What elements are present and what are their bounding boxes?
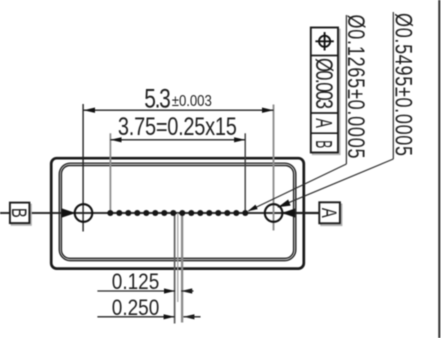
dimension 0.250 line: [97, 316, 174, 318]
arrow 5.3 left: [84, 108, 96, 113]
leader to pin hole: [248, 164, 346, 211]
feature control frame box: [311, 28, 338, 153]
arrow 0.250 right-pointing: [164, 314, 175, 319]
part inner cavity outline (outer line): [59, 163, 295, 260]
pin holes row (16 small holes): [107, 210, 248, 216]
FCF divider 3: [311, 132, 338, 134]
sheet right border: [438, 0, 440, 338]
leader to right hole: [278, 159, 394, 207]
svg-text:A: A: [310, 118, 335, 128]
left mounting hole: [75, 204, 93, 222]
svg-text:A: A: [317, 208, 341, 218]
FCF divider 2: [311, 112, 338, 114]
FCF position symbol: [315, 32, 333, 50]
centerline of pin 9 (vertical, bottom): [181, 213, 183, 323]
part outer body outline: [51, 158, 304, 268]
svg-text:0.125: 0.125: [112, 270, 160, 295]
datum A box shadow: [321, 204, 342, 225]
svg-text:0.250: 0.250: [112, 296, 160, 321]
arrow 0.125 opposing: [181, 288, 192, 293]
part inner cavity outline (inner line): [61, 166, 293, 259]
leader underline for Ø0.5495: [392, 12, 394, 159]
dimension 5.3 line: [84, 109, 274, 111]
arrow datum B at left hole: [62, 208, 76, 217]
arrow 0.250 opposing: [183, 314, 194, 319]
tail 0.125 opposing: [181, 290, 193, 292]
extension line left of 3.75 dim: [109, 133, 111, 210]
svg-text:B: B: [311, 140, 337, 148]
datum A box: [319, 202, 340, 223]
svg-text:B: B: [7, 208, 31, 218]
arrow datum A at right hole: [282, 212, 320, 214]
tail 0.250 opposing: [183, 316, 200, 318]
datum B box shadow: [12, 205, 32, 226]
datum B box: [10, 203, 30, 224]
svg-text:5.3: 5.3: [144, 84, 171, 114]
centerline half-pitch (vertical, bottom): [177, 213, 179, 302]
centerline of left hole (vertical): [82, 104, 84, 232]
FCF divider 1: [311, 55, 338, 57]
svg-text:Ø0.003: Ø0.003: [311, 58, 338, 109]
centerline of pin 8 (vertical, bottom): [174, 213, 176, 324]
centerline / extension line of right hole (vertical): [273, 105, 275, 231]
dimension 3.75 line: [110, 139, 245, 141]
feature control frame shadow: [313, 29, 340, 154]
arrow 3.75 left: [110, 137, 121, 142]
svg-text:±0.003: ±0.003: [172, 93, 212, 110]
leader arrow at right hole: [277, 200, 291, 211]
wire horizontal centerline B-to-A: [0, 212, 320, 214]
svg-text:3.75=0.25x15: 3.75=0.25x15: [118, 113, 237, 141]
extension line right of 3.75 dim: [244, 133, 246, 213]
dimension 0.125 line: [97, 290, 175, 292]
leader arrow at pin hole: [247, 205, 258, 214]
arrow 5.3 right: [262, 108, 274, 113]
arrow 3.75 right: [234, 137, 245, 142]
leader underline for Ø0.1265: [345, 15, 347, 164]
right mounting hole: [265, 204, 283, 222]
arrow 0.125 right-pointing: [164, 288, 175, 293]
